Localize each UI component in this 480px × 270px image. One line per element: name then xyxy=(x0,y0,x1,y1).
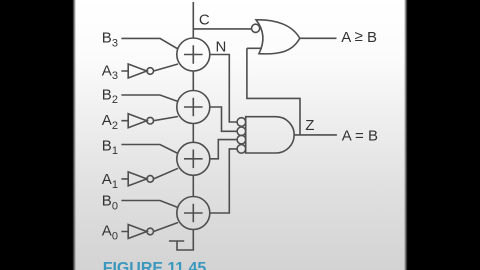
svg-text:FIGURE 11.45: FIGURE 11.45 xyxy=(103,260,207,270)
svg-text:C: C xyxy=(199,11,210,28)
svg-text:Z: Z xyxy=(305,117,314,134)
svg-text:N: N xyxy=(216,39,227,56)
svg-text:A ≥ B: A ≥ B xyxy=(341,28,377,46)
svg-text:A = B: A = B xyxy=(342,127,378,144)
